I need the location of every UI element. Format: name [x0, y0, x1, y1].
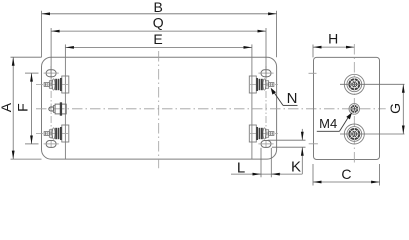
- side body outline: [314, 57, 380, 159]
- svg-text:C: C: [341, 166, 351, 182]
- left slots column centerline: [50, 66, 52, 150]
- hole bottom (M4 terminal): [344, 124, 364, 144]
- slot top-right: [258, 70, 273, 77]
- dimension E: [65, 46, 252, 48]
- main horizontal center line: [36, 108, 386, 110]
- svg-text:H: H: [328, 31, 338, 47]
- svg-text:B: B: [154, 0, 163, 15]
- label N leader: [271, 88, 298, 106]
- terminal bottom-right: [249, 125, 278, 142]
- body outline: [42, 57, 277, 159]
- slot top-left: [44, 70, 59, 77]
- terminal top-right: [249, 76, 278, 93]
- hole top (M4 terminal): [344, 74, 364, 94]
- slot row centerline dash top: [309, 72, 317, 74]
- svg-text:M4: M4: [319, 116, 337, 131]
- slot row centerline dash bottom: [309, 143, 318, 145]
- hole middle small (M4): [349, 104, 360, 115]
- svg-text:A: A: [0, 102, 14, 112]
- dimension L: [231, 148, 302, 178]
- svg-text:E: E: [153, 31, 162, 47]
- M4 leader: [317, 113, 352, 132]
- dimension F: [25, 73, 39, 144]
- dimension G: [340, 84, 405, 134]
- dimension C: [313, 164, 380, 186]
- svg-text:Q: Q: [153, 14, 164, 30]
- terminal bottom-left: [36, 125, 70, 142]
- dimension K: [268, 129, 306, 174]
- vertical center line: [158, 51, 160, 168]
- svg-text:G: G: [387, 103, 403, 114]
- dimension B: [42, 11, 277, 57]
- inner right plate line: [251, 44, 253, 159]
- slot bottom-right: [258, 140, 273, 147]
- svg-text:N: N: [287, 90, 298, 107]
- terminal top-left: [36, 76, 70, 93]
- dimension H: [313, 45, 354, 58]
- svg-text:L: L: [237, 160, 245, 177]
- right slots column centerline: [265, 66, 267, 150]
- side vertical centerline: [353, 44, 355, 165]
- inner left plate line: [64, 44, 66, 159]
- dimension Q: [51, 28, 266, 79]
- svg-text:F: F: [15, 103, 31, 112]
- slot bottom-left: [44, 140, 59, 147]
- dimension A: [11, 57, 42, 159]
- svg-text:K: K: [291, 159, 301, 176]
- terminal middle-left: [49, 102, 66, 115]
